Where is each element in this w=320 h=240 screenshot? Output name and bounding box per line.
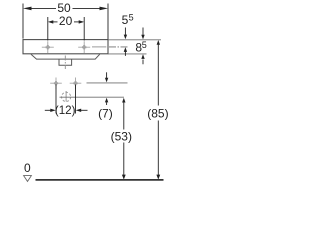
dimension (85) <box>157 45 159 176</box>
dimension (7) <box>106 72 108 105</box>
washbasin bowl outline <box>31 54 100 59</box>
dimension 8.5 <box>142 28 144 65</box>
line B tap centerline extension beyond rim <box>109 46 129 48</box>
dimension 20 <box>48 17 84 41</box>
line D trap centerline extension <box>60 96 125 98</box>
drain centerline <box>64 56 66 70</box>
fixing bolt cross right <box>70 78 82 90</box>
datum triangle <box>24 176 32 182</box>
line A rim-top extension <box>108 39 161 41</box>
svg-text:5: 5 <box>122 13 129 27</box>
dimension (12) <box>45 85 88 114</box>
tap centerline dash inside rim <box>92 46 106 48</box>
svg-text:5: 5 <box>129 13 134 23</box>
svg-text:50: 50 <box>57 1 71 15</box>
dimension 5.5 <box>124 28 126 56</box>
dimension 50 <box>23 4 108 40</box>
svg-text:(7): (7) <box>98 107 113 121</box>
svg-text:(12): (12) <box>55 104 76 117</box>
line C rim-bottom extension <box>108 53 147 55</box>
washbasin front view rim <box>23 40 108 54</box>
svg-text:5: 5 <box>142 40 147 50</box>
svg-text:(53): (53) <box>111 130 132 144</box>
floor line <box>36 179 164 181</box>
trap circle vertical centerline <box>65 91 67 102</box>
svg-text:(85): (85) <box>147 107 168 121</box>
dimension (53) <box>123 102 125 176</box>
trap outlet circle <box>62 92 71 101</box>
tap hole cross left <box>42 41 54 53</box>
svg-text:0: 0 <box>24 161 31 175</box>
drain box <box>59 59 72 65</box>
svg-text:20: 20 <box>59 14 73 28</box>
line E bolt centerline extension <box>87 82 128 84</box>
fixing bolt cross left <box>50 78 62 90</box>
tap hole cross right <box>78 41 90 53</box>
